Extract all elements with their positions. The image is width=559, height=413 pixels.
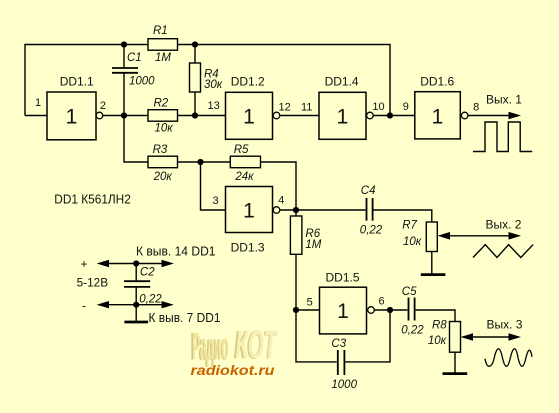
svg-text:C4: C4 [361,185,376,197]
svg-text:radiokot.ru: radiokot.ru [191,363,276,378]
svg-text:0,22: 0,22 [360,224,383,236]
svg-text:R2: R2 [154,98,169,110]
wire C1 column [123,45,125,116]
junction node DD1.3 output [293,207,299,213]
svg-text:Вых. 3: Вых. 3 [487,318,523,332]
svg-text:5-12В: 5-12В [77,275,109,289]
inverter gate DD1.5 [307,270,385,334]
svg-text:1: 1 [35,97,41,109]
square wave symbol [473,122,532,152]
svg-text:13: 13 [208,100,220,112]
wire R6 top stub [295,210,297,216]
svg-text:1: 1 [243,105,255,128]
junction node R3/R5 [197,159,203,165]
svg-text:8: 8 [473,102,479,114]
svg-text:2: 2 [100,100,106,112]
junction node DD1.4/DD1.6 [387,112,393,118]
wire C3 feedback loop [296,310,390,362]
wire DD1.2 output pin 12 to DD1.4 input pin 11 [280,115,319,117]
svg-text:10к: 10к [403,236,422,248]
resistor R1 1M [148,25,178,64]
svg-text:30к: 30к [204,79,223,91]
svg-text:R7: R7 [402,219,417,231]
svg-text:5: 5 [307,296,313,308]
svg-text:DD1.2: DD1.2 [231,74,265,88]
svg-text:1: 1 [66,105,78,128]
inverter gate DD1.6 [403,75,480,139]
wire C2 column [135,264,137,305]
wire DD1.1 output to R2 [103,115,148,117]
junction node power plus [133,260,139,266]
wire DD1.5 output to C5 [375,309,408,311]
inverter gate DD1.3 [213,187,285,255]
capacitor C5 0,22 [401,286,424,337]
svg-text:-: - [82,298,86,312]
wire R4 column [194,45,196,116]
svg-text:DD1.4: DD1.4 [325,74,359,88]
resistor R2 10k [148,98,178,135]
sine wave symbol [485,349,532,367]
svg-text:R1: R1 [153,25,168,37]
IC designation DD1 K561LN2 [54,191,131,206]
triangle wave symbol [473,245,533,258]
svg-text:DD1 К561ЛН2: DD1 К561ЛН2 [54,191,131,206]
svg-text:10: 10 [372,101,384,113]
svg-text:Радио: Радио [192,326,229,368]
svg-text:КОТ: КОТ [236,323,279,367]
resistor R5 24k [230,144,260,183]
svg-text:1000: 1000 [129,76,155,88]
wire R6 bottom to DD1.5 input node [295,254,297,310]
watermark Radio KOT logo [191,323,279,378]
svg-text:Вых. 1: Вых. 1 [486,93,522,107]
svg-text:C3: C3 [331,338,346,350]
wire node B down to R3 [124,116,148,163]
capacitor C3 1000 [331,338,357,391]
wire C4 to R7 top [373,210,432,222]
svg-text:DD1.6: DD1.6 [420,75,454,89]
ground under R7 [421,273,446,276]
inverter gate DD1.1 [35,75,106,140]
wire R1 right to corner down to DD1.4/DD1.6 junction [178,45,391,116]
junction node R4 bottom [192,112,198,118]
power rail plus with arrows to pin 14 [81,244,216,272]
output arrow Vyh.1 [468,93,522,120]
resistor R3 20k [148,144,178,183]
svg-text:Вых. 2: Вых. 2 [486,217,522,231]
junction node DD1.5 output [387,307,393,313]
power supply voltage label [77,275,109,289]
wire R2 to DD1.2 input pin 13 [178,115,226,117]
ground power common [124,305,148,322]
wire C5 to R8 top [416,310,455,322]
wire top loop from DD1.1 input up to R1 [25,45,148,116]
svg-text:9: 9 [403,101,409,113]
power rail minus with arrows to pin 7 [82,298,221,325]
svg-text:1: 1 [337,300,349,323]
svg-text:К выв. 7 DD1: К выв. 7 DD1 [149,310,221,325]
svg-text:DD1.3: DD1.3 [231,241,265,255]
svg-text:R6: R6 [305,228,320,240]
svg-text:+: + [81,257,88,271]
svg-text:К выв. 14 DD1: К выв. 14 DD1 [136,244,216,259]
junction node DD1.5 input [293,307,299,313]
svg-text:10к: 10к [155,123,174,135]
inverter gate DD1.4 [301,74,385,139]
svg-text:C1: C1 [127,52,142,64]
svg-text:1: 1 [337,105,349,128]
potentiometer R7 10k [402,219,437,251]
junction node C1 top [121,41,127,47]
svg-text:R3: R3 [153,144,168,156]
svg-text:4: 4 [278,194,284,206]
wire R3 junction down to DD1.3 input pin 3 [201,162,226,210]
wire DD1.3 output to C4 [280,209,366,211]
capacitor C4 0,22 [360,185,383,236]
svg-text:11: 11 [301,101,312,113]
svg-text:R5: R5 [234,144,249,156]
output arrow Vyh.3 (potentiometer wiper) [461,318,523,341]
junction node C1 bottom [121,112,127,118]
junction node power minus [133,302,139,308]
svg-text:24к: 24к [234,171,254,183]
wire DD1.5 input [296,309,320,311]
resistor R4 30k (vertical) [190,63,223,92]
svg-text:6: 6 [379,296,385,308]
svg-text:DD1.1: DD1.1 [60,75,94,89]
potentiometer R8 10k [428,319,461,352]
resistor R6 1M (vertical) [290,216,321,254]
svg-text:1M: 1M [155,52,171,64]
wire R5 right corner down to DD1.3 output node [261,162,297,210]
inverter gate DD1.2 [208,74,291,139]
svg-text:1000: 1000 [331,379,357,391]
svg-text:C5: C5 [402,286,417,298]
svg-text:12: 12 [279,101,291,113]
svg-text:1M: 1M [305,239,321,251]
svg-text:20к: 20к [153,171,173,183]
wire R3 to R5 [178,161,231,163]
wire R7 bottom to ground [431,252,433,274]
svg-text:0,22: 0,22 [139,294,162,306]
wire DD1.4 output pin 10 to DD1.6 input pin 9 [373,115,415,117]
junction node R1/R4 top [192,41,198,47]
svg-text:10к: 10к [428,335,447,347]
svg-text:1: 1 [243,199,255,222]
capacitor C2 0,22 [124,267,162,306]
ground under R8 [443,372,468,375]
svg-text:R8: R8 [432,319,447,331]
svg-text:DD1.5: DD1.5 [326,270,360,284]
svg-text:0,22: 0,22 [401,325,424,337]
output arrow Vyh.2 (potentiometer wiper) [438,217,522,239]
wire R8 bottom to ground [454,352,456,372]
svg-text:1: 1 [432,105,444,128]
svg-text:3: 3 [213,195,219,207]
svg-text:C2: C2 [140,267,155,279]
capacitor C1 1000 [112,52,155,88]
